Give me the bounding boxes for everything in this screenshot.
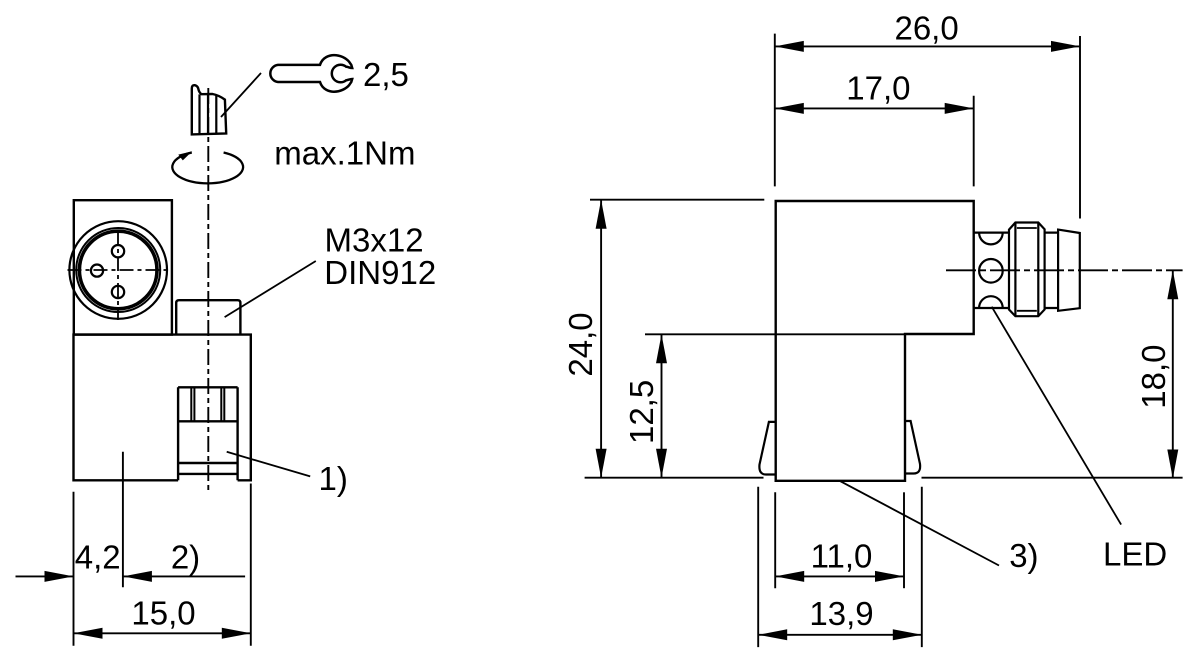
nut outline [1009, 223, 1045, 317]
right view: 24,0 top extension [590, 199, 764, 201]
dim 11,0 line [775, 575, 904, 577]
bottom ext 13,9 left [757, 487, 759, 647]
dim 13,9 line [758, 634, 922, 636]
left dim extension line right [250, 484, 252, 646]
ground line left segment [585, 477, 764, 479]
svg-text:26,0: 26,0 [894, 9, 958, 46]
svg-text:11,0: 11,0 [811, 538, 873, 575]
svg-text:2,5: 2,5 [363, 56, 409, 93]
right view: body outline [776, 201, 974, 481]
screw glyph [192, 85, 226, 134]
dim 18,0 line [1172, 270, 1174, 478]
left view: screw boss [176, 300, 240, 334]
cone outline [1058, 230, 1080, 311]
dim 2) arrow [123, 571, 152, 582]
flange bottom semicircle [979, 296, 1003, 308]
wrench callout line [221, 73, 261, 117]
bottom ext 11,0 left [774, 492, 776, 588]
left view: pin top [112, 245, 124, 257]
bottom ext 13,9 right [921, 487, 923, 647]
rotation ellipse [172, 153, 243, 184]
svg-text:18,0: 18,0 [1135, 344, 1172, 408]
ground line right segment [922, 477, 1183, 479]
1) callout line [227, 452, 311, 477]
svg-text:2): 2) [171, 539, 200, 576]
svg-text:12,5: 12,5 [623, 380, 660, 444]
M3x12 callout line [225, 261, 316, 317]
left view: connector ring outer [76, 228, 160, 312]
rotation arrowhead [178, 151, 192, 160]
connector horizontal centerline [946, 269, 1183, 271]
3) callout line [840, 481, 999, 566]
svg-text:15,0: 15,0 [131, 595, 195, 632]
dim 15,0 arrows [74, 628, 103, 639]
left view: clamp outer [178, 387, 238, 480]
dim 24,0 line [600, 200, 602, 478]
svg-text:17,0: 17,0 [846, 69, 910, 106]
svg-text:DIN912: DIN912 [324, 254, 436, 291]
left view: connector ring inner [79, 231, 157, 309]
nut inner verticals [1015, 223, 1038, 317]
svg-text:3): 3) [1009, 537, 1038, 574]
svg-text:24,0: 24,0 [562, 312, 599, 376]
left dim extension line mid [122, 452, 124, 588]
bottom ext 11,0 right [903, 492, 905, 588]
svg-text:13,9: 13,9 [809, 595, 873, 632]
dim 4,2 left line [16, 575, 74, 577]
connector flange top/bottom lines [974, 233, 1009, 308]
svg-text:LED: LED [1103, 536, 1167, 573]
left dim extension line left [73, 492, 75, 646]
ext 17 right [973, 96, 975, 187]
dim 2) line [123, 575, 245, 577]
left view: pin left [91, 265, 103, 277]
flange middle circle [979, 259, 1003, 283]
wrench icon [270, 55, 352, 92]
left view: connector outer circle [69, 221, 167, 319]
svg-text:4,2: 4,2 [75, 539, 121, 576]
dim 4,2 left arrow [45, 571, 74, 582]
screw stripes [200, 94, 217, 134]
dim 15,0 line [74, 632, 251, 634]
flange top semicircle [979, 233, 1003, 245]
LED callout line [992, 307, 1121, 525]
right view: left foot [759, 422, 775, 475]
right view: 12,5 extension crossing body [645, 333, 905, 335]
ext 26/17 left [774, 34, 776, 187]
dim 12,5 line [661, 334, 663, 477]
right view: right foot [905, 421, 920, 474]
left view: main body outline [74, 335, 251, 481]
dim 26,0 line [775, 45, 1080, 47]
svg-text:max.1Nm: max.1Nm [274, 134, 415, 171]
left view: clamp lower line [178, 462, 238, 464]
left view: connector horizontal centerline [68, 269, 167, 271]
left view: pin bottom [112, 286, 124, 298]
ext 26 right [1079, 36, 1081, 219]
left view: connector housing [74, 200, 172, 334]
shaft lines [1045, 233, 1059, 308]
left view: clamp mid line [178, 420, 238, 422]
left view: connector vertical centerline [117, 231, 119, 320]
svg-text:1): 1) [319, 460, 348, 497]
nut inner horizontals [1017, 228, 1037, 311]
dim 17,0 line [775, 107, 974, 109]
left view: clamp slot lines [191, 387, 224, 421]
left view: screw axis dashed centerline [207, 88, 209, 494]
